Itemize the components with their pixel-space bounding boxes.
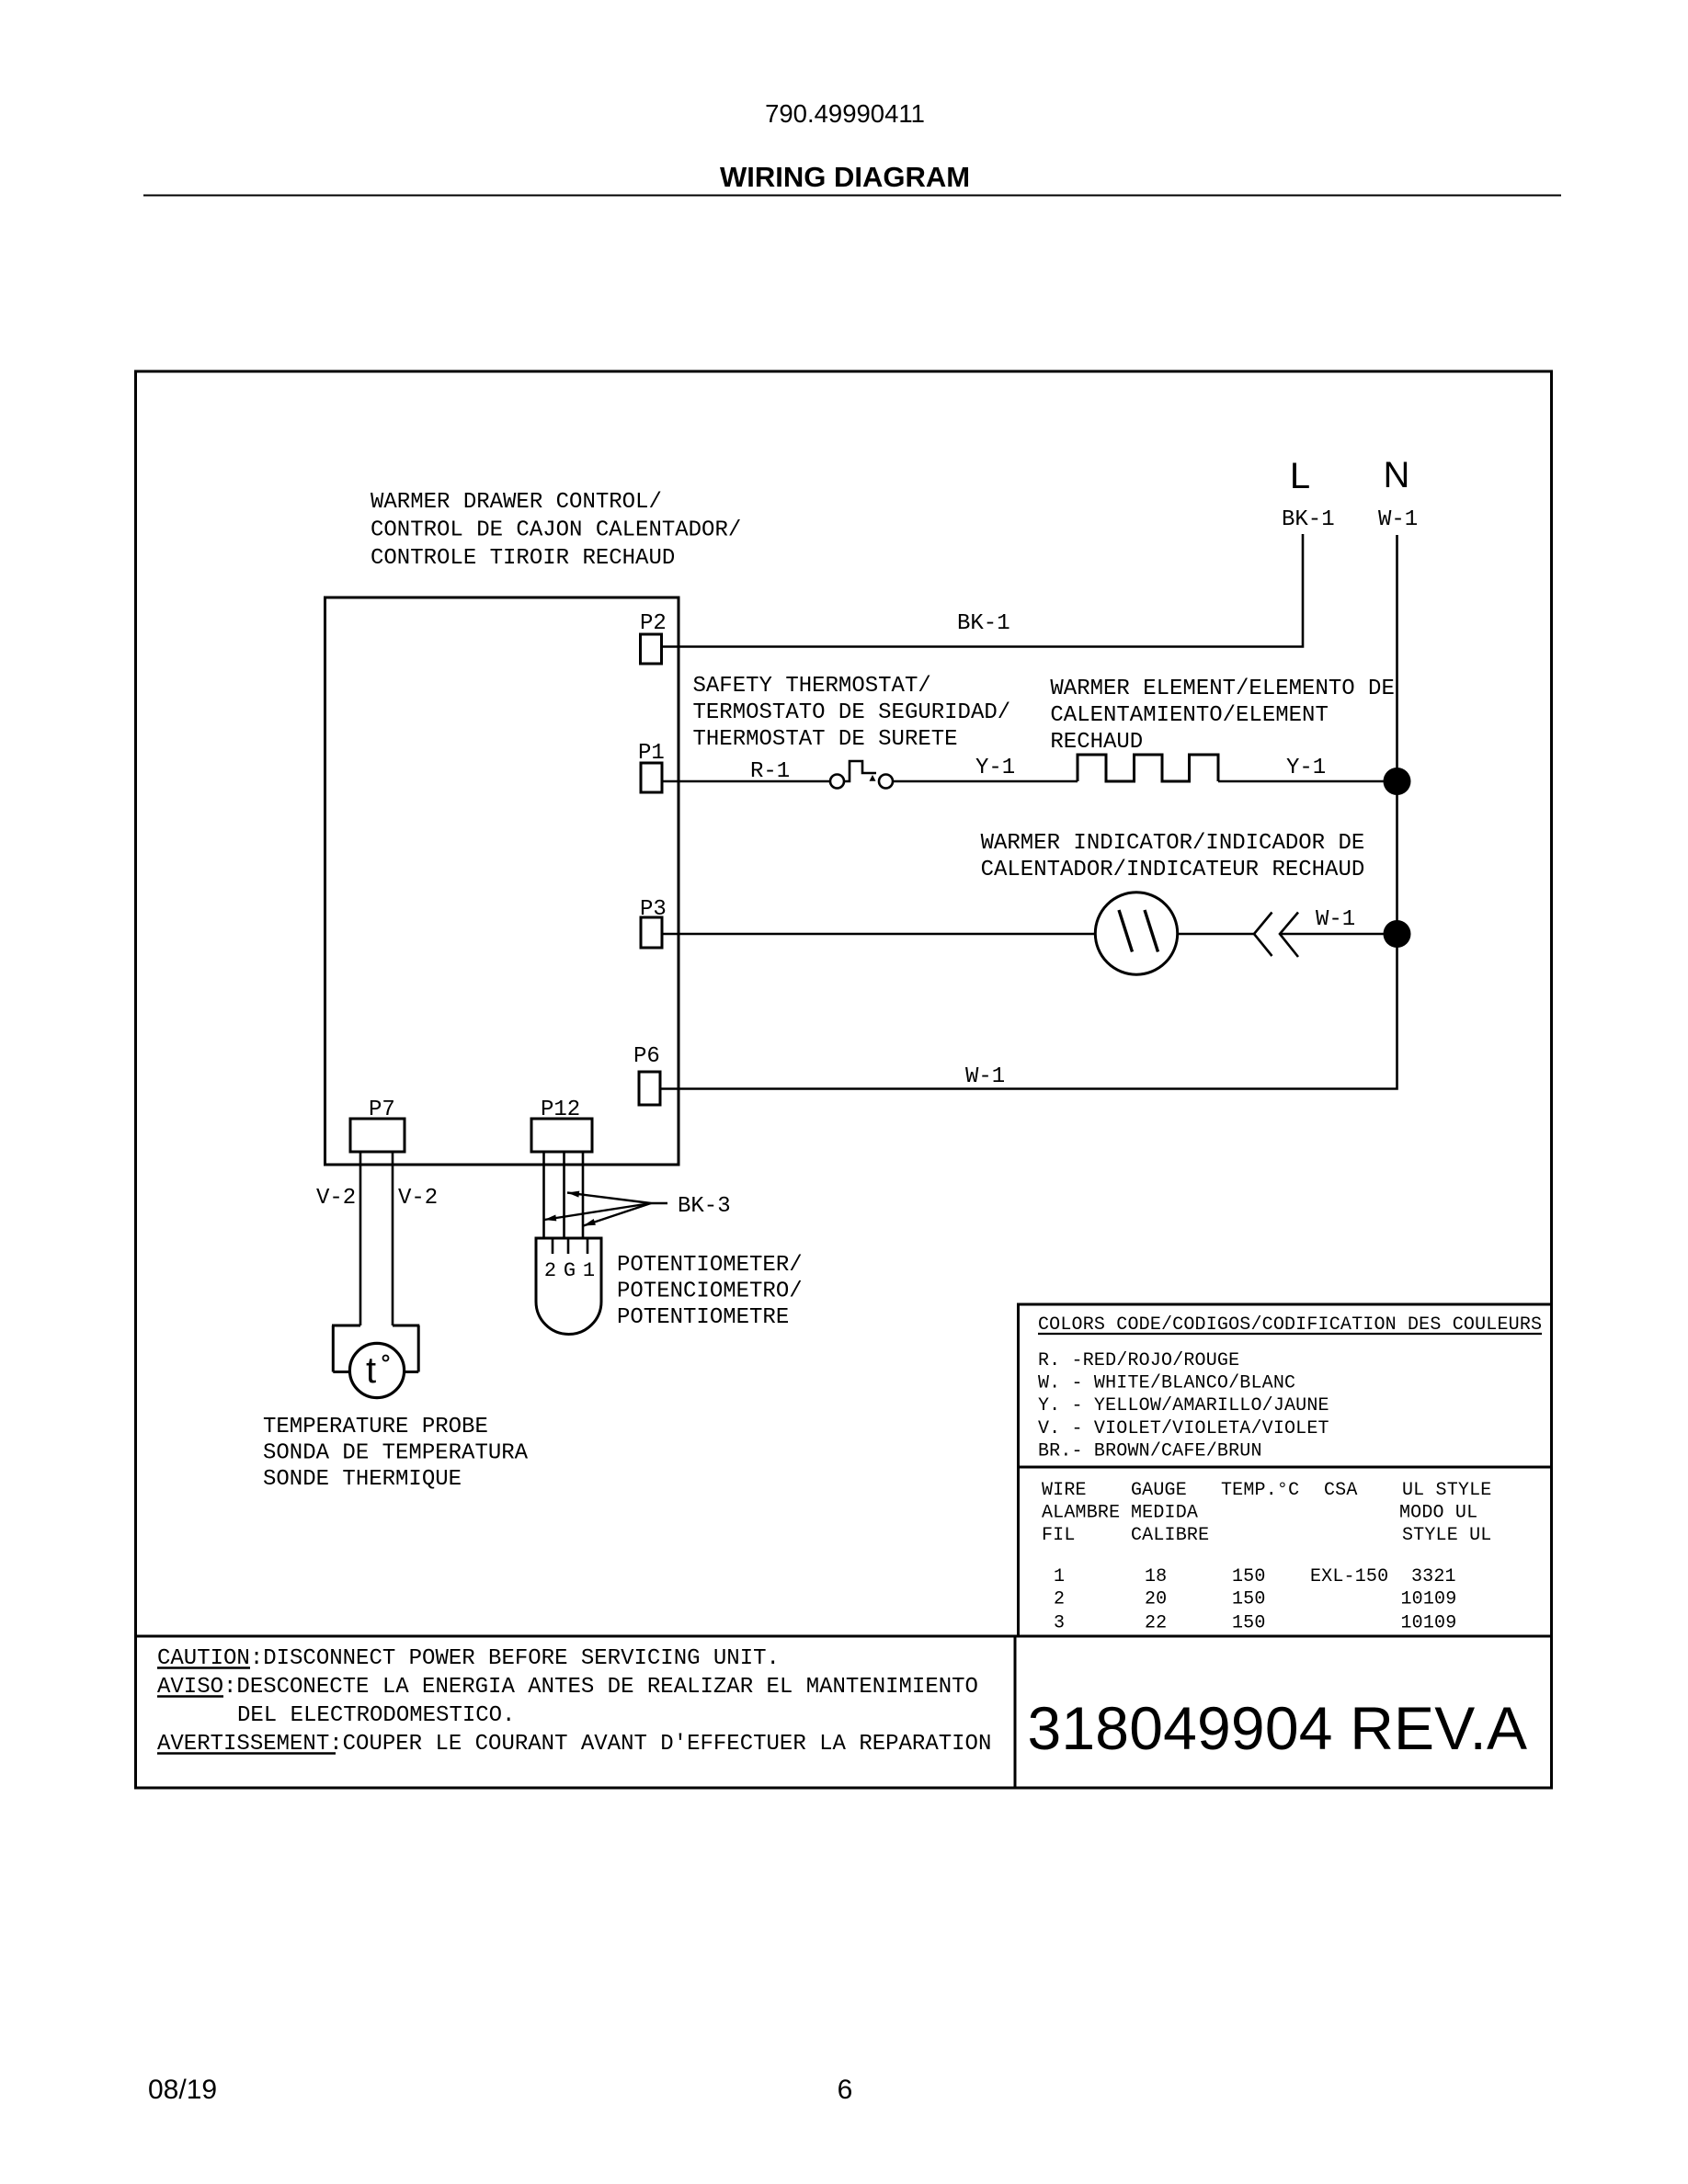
- svg-text:10109: 10109: [1401, 1589, 1457, 1610]
- svg-text:790.49990411: 790.49990411: [765, 99, 925, 128]
- svg-text:POTENCIOMETRO/: POTENCIOMETRO/: [617, 1280, 803, 1304]
- svg-text:G: G: [564, 1259, 576, 1282]
- pin P12 connector: [531, 1119, 592, 1152]
- svg-text:DEL ELECTRODOMESTICO.: DEL ELECTRODOMESTICO.: [237, 1703, 515, 1728]
- svg-text:BK-1: BK-1: [1282, 507, 1335, 532]
- temperature probe RT1 circle: [349, 1343, 404, 1397]
- wire V-2 right from P7: [392, 1152, 394, 1325]
- wire table divider line: [1019, 1466, 1552, 1469]
- svg-text:AVISO:DESCONECTE LA ENERGIA AN: AVISO:DESCONECTE LA ENERGIA ANTES DE REA…: [157, 1675, 978, 1700]
- label WARMER DRAWER CONTROL: [371, 490, 741, 571]
- potentiometer pin G: [567, 1239, 570, 1254]
- svg-text:L: L: [1290, 456, 1310, 496]
- svg-text:TEMPERATURE PROBE: TEMPERATURE PROBE: [263, 1415, 488, 1439]
- svg-text:THERMOSTAT DE SURETE: THERMOSTAT DE SURETE: [693, 727, 958, 752]
- svg-text:STYLE UL: STYLE UL: [1402, 1525, 1491, 1546]
- svg-text:CALENTAMIENTO/ELEMENT: CALENTAMIENTO/ELEMENT: [1050, 703, 1328, 728]
- svg-text:POTENTIOMETER/: POTENTIOMETER/: [617, 1253, 803, 1278]
- svg-text:WIRE: WIRE: [1042, 1480, 1087, 1501]
- wire BK-1 from P2 to L lead: [662, 534, 1304, 647]
- BK-3 callout arrow line A: [567, 1193, 651, 1204]
- label TEMPERATURE PROBE: [263, 1415, 529, 1492]
- svg-text:R. -RED/ROJO/ROUGE: R. -RED/ROJO/ROUGE: [1038, 1350, 1239, 1371]
- caution text block: [157, 1646, 991, 1757]
- svg-text:2: 2: [544, 1259, 556, 1282]
- svg-text:V-2: V-2: [398, 1186, 438, 1211]
- svg-text:ALAMBRE: ALAMBRE: [1042, 1503, 1120, 1524]
- colors code box: [1019, 1304, 1552, 1636]
- svg-text:WARMER DRAWER CONTROL/: WARMER DRAWER CONTROL/: [371, 490, 662, 515]
- wire Y-1 from element to node: [1218, 780, 1397, 783]
- BK-3 arrowhead C: [584, 1219, 596, 1226]
- svg-text:CALENTADOR/INDICATEUR RECHAUD: CALENTADOR/INDICATEUR RECHAUD: [981, 858, 1365, 882]
- BK-3 arrowhead B: [544, 1215, 556, 1222]
- svg-text:18: 18: [1145, 1566, 1167, 1587]
- safety thermostat S1 step contact: [844, 761, 876, 781]
- underline CAUTION: [157, 1666, 250, 1669]
- svg-text:10109: 10109: [1401, 1612, 1457, 1633]
- svg-text:1: 1: [583, 1259, 595, 1282]
- svg-text:3321: 3321: [1411, 1566, 1456, 1587]
- svg-text:BK-3: BK-3: [678, 1194, 731, 1219]
- pin P2: [641, 634, 662, 664]
- svg-text:150: 150: [1232, 1566, 1266, 1587]
- svg-text:W-1: W-1: [1378, 507, 1418, 532]
- svg-text:BK-1: BK-1: [957, 611, 1010, 636]
- svg-text:WARMER INDICATOR/INDICADOR DE: WARMER INDICATOR/INDICADOR DE: [981, 831, 1365, 856]
- wire table row 1: [1054, 1566, 1456, 1587]
- svg-text:TEMP.°C: TEMP.°C: [1221, 1480, 1299, 1501]
- svg-text:318049904 REV.A: 318049904 REV.A: [1028, 1694, 1528, 1762]
- svg-text:Y-1: Y-1: [1286, 756, 1326, 780]
- wire BK-3 lead 3: [582, 1152, 585, 1238]
- svg-text:BR.- BROWN/CAFE/BRUN: BR.- BROWN/CAFE/BRUN: [1038, 1440, 1262, 1462]
- svg-text:WIRING DIAGRAM: WIRING DIAGRAM: [720, 161, 970, 193]
- potentiometer VR1 body: [536, 1238, 601, 1334]
- color code list: [1038, 1350, 1329, 1462]
- wire table row 2: [1054, 1589, 1456, 1610]
- safety thermostat S1 right terminal circle: [879, 775, 893, 789]
- colors code title underline: [1038, 1333, 1542, 1335]
- svg-text:CONTROL DE CAJON CALENTADOR/: CONTROL DE CAJON CALENTADOR/: [371, 518, 741, 543]
- safety thermostat S1 actuator triangle: [870, 775, 876, 781]
- connector chevron 2: [1280, 913, 1298, 958]
- pin P7 connector: [350, 1119, 405, 1152]
- indicator lamp filament slash 2: [1145, 910, 1158, 952]
- svg-text:RECHAUD: RECHAUD: [1050, 730, 1143, 755]
- svg-text:CAUTION:DISCONNECT POWER BEFOR: CAUTION:DISCONNECT POWER BEFORE SERVICIN…: [157, 1646, 780, 1671]
- svg-text:W-1: W-1: [1316, 907, 1355, 932]
- svg-text:P6: P6: [633, 1044, 660, 1069]
- svg-text:22: 22: [1145, 1612, 1167, 1633]
- svg-text:WARMER ELEMENT/ELEMENTO DE: WARMER ELEMENT/ELEMENTO DE: [1050, 677, 1394, 701]
- svg-text:FIL: FIL: [1042, 1525, 1076, 1546]
- wire BK-3 lead 2: [563, 1152, 565, 1238]
- BK-3 callout tail: [651, 1202, 667, 1204]
- bottom strip separator line: [136, 1635, 1552, 1638]
- wire N vertical lead down to P6 return: [660, 535, 1397, 1089]
- svg-text:Y-1: Y-1: [975, 756, 1015, 780]
- svg-text:R-1: R-1: [750, 759, 790, 784]
- svg-text:CSA: CSA: [1324, 1480, 1358, 1501]
- BK-3 callout arrow line C: [584, 1203, 652, 1226]
- svg-text:3: 3: [1054, 1612, 1065, 1633]
- svg-text:EXL-150: EXL-150: [1310, 1566, 1388, 1587]
- svg-text:W. - WHITE/BLANCO/BLANC: W. - WHITE/BLANCO/BLANC: [1038, 1373, 1295, 1394]
- svg-text:UL STYLE: UL STYLE: [1402, 1480, 1491, 1501]
- svg-text:150: 150: [1232, 1589, 1266, 1610]
- BK-3 callout arrow line B: [544, 1203, 651, 1220]
- svg-text:20: 20: [1145, 1589, 1167, 1610]
- junction node indicator/N: [1384, 920, 1411, 948]
- svg-text:P2: P2: [640, 611, 667, 636]
- potentiometer pin 2: [552, 1239, 554, 1254]
- wire from P3 to indicator lamp: [662, 933, 1095, 936]
- label SAFETY THERMOSTAT: [693, 674, 1011, 752]
- svg-text:t: t: [366, 1350, 376, 1391]
- svg-text:08/19: 08/19: [148, 2075, 217, 2105]
- outer diagram border frame: [136, 371, 1552, 1788]
- svg-text:CALIBRE: CALIBRE: [1131, 1525, 1209, 1546]
- svg-text:W-1: W-1: [965, 1064, 1005, 1089]
- svg-text:POTENTIOMETRE: POTENTIOMETRE: [617, 1305, 789, 1330]
- wire Y-1 from thermostat to warmer element: [893, 780, 1078, 783]
- svg-text:SONDA DE TEMPERATURA: SONDA DE TEMPERATURA: [263, 1441, 529, 1466]
- warmer element R1 square-wave heating element: [1078, 755, 1218, 781]
- svg-text:V-2: V-2: [316, 1186, 356, 1211]
- warmer drawer control box U1: [325, 597, 679, 1165]
- junction node element/N: [1384, 768, 1411, 795]
- indicator lamp filament slash 1: [1119, 910, 1133, 952]
- pin P6: [639, 1072, 660, 1105]
- wire table row 3: [1054, 1612, 1456, 1633]
- svg-text:2: 2: [1054, 1589, 1065, 1610]
- svg-text:MODO UL: MODO UL: [1399, 1503, 1477, 1524]
- warmer indicator lamp DS1 circle: [1095, 893, 1177, 974]
- wire BK-3 lead 1: [542, 1152, 545, 1238]
- title underline rule: [143, 195, 1561, 197]
- temperature probe RT1 body outline: [332, 1325, 419, 1372]
- safety thermostat S1 left terminal circle: [830, 775, 844, 789]
- svg-text:MEDIDA: MEDIDA: [1131, 1503, 1198, 1524]
- wire R-1 from P1 to safety thermostat: [662, 780, 830, 783]
- svg-text:150: 150: [1232, 1612, 1266, 1633]
- label WARMER INDICATOR: [981, 831, 1365, 882]
- svg-text:V. - VIOLET/VIOLETA/VIOLET: V. - VIOLET/VIOLETA/VIOLET: [1038, 1418, 1329, 1439]
- label POTENTIOMETER: [617, 1253, 803, 1330]
- bottom strip vertical divider: [1014, 1636, 1017, 1788]
- connector chevron 1: [1254, 913, 1272, 957]
- label WARMER ELEMENT: [1050, 677, 1394, 755]
- potentiometer pin 1: [587, 1239, 589, 1254]
- wire from lamp to chevrons: [1178, 933, 1254, 936]
- wire W-1 from chevrons to node: [1280, 933, 1397, 936]
- pin P1: [641, 763, 662, 792]
- svg-text:TERMOSTATO DE SEGURIDAD/: TERMOSTATO DE SEGURIDAD/: [693, 700, 1011, 725]
- svg-text:SAFETY THERMOSTAT/: SAFETY THERMOSTAT/: [693, 674, 931, 699]
- pin P3: [641, 917, 662, 948]
- temperature probe degree mark: [383, 1356, 389, 1361]
- underline AVERTISSEMENT: [157, 1752, 336, 1755]
- svg-text:N: N: [1384, 455, 1410, 495]
- svg-text:Y. - YELLOW/AMARILLO/JAUNE: Y. - YELLOW/AMARILLO/JAUNE: [1038, 1395, 1329, 1416]
- svg-text:6: 6: [838, 2075, 853, 2105]
- wire V-2 left from P7: [359, 1152, 362, 1325]
- svg-text:SONDE THERMIQUE: SONDE THERMIQUE: [263, 1467, 462, 1492]
- svg-text:GAUGE: GAUGE: [1131, 1480, 1187, 1501]
- svg-text:1: 1: [1054, 1566, 1065, 1587]
- BK-3 arrowhead A: [567, 1191, 579, 1198]
- svg-text:CONTROLE TIROIR RECHAUD: CONTROLE TIROIR RECHAUD: [371, 546, 675, 571]
- underline AVISO: [157, 1695, 223, 1698]
- svg-text:COLORS CODE/CODIGOS/CODIFICATI: COLORS CODE/CODIGOS/CODIFICATION DES COU…: [1038, 1314, 1542, 1336]
- wire table header: [1042, 1480, 1491, 1546]
